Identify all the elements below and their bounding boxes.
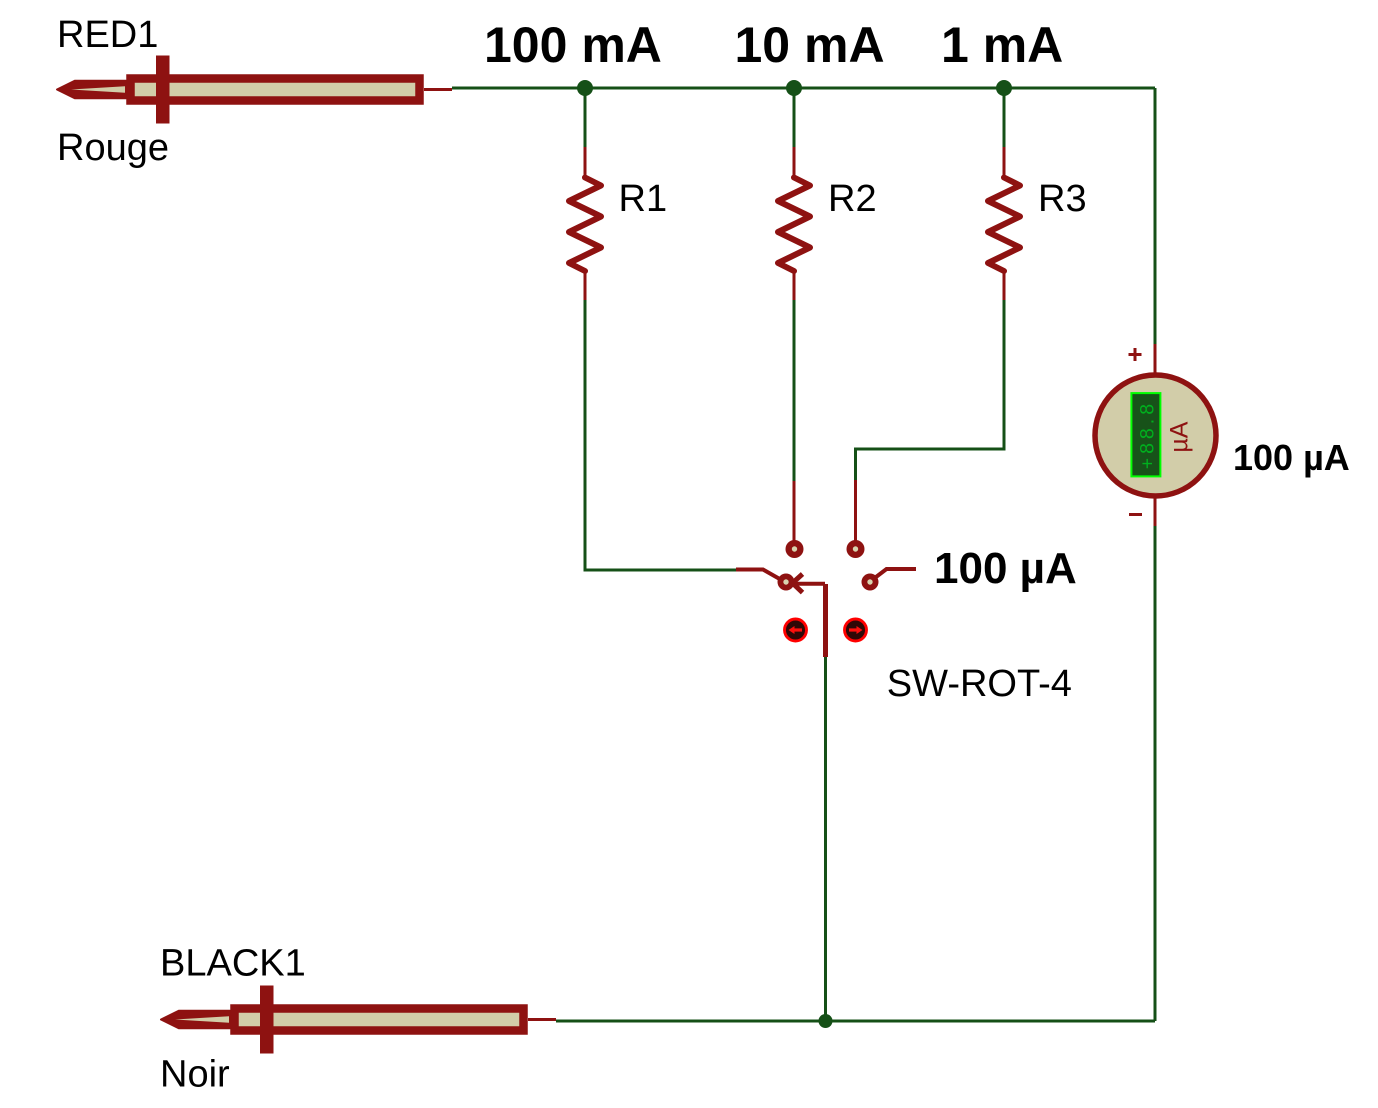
wire right vertical to meter	[1154, 88, 1157, 344]
stub to 100uA terminal	[876, 569, 916, 577]
pin lead from R3	[854, 480, 857, 541]
svg-text:R2: R2	[828, 178, 877, 220]
svg-text:10 mA: 10 mA	[735, 17, 885, 73]
svg-text:100 µA: 100 µA	[934, 544, 1077, 593]
switch SW-ROT-4	[736, 480, 916, 657]
svg-text:Noir: Noir	[160, 1054, 230, 1096]
wire top bus	[452, 87, 1155, 90]
wire R1 top	[584, 88, 587, 147]
minus lead	[1154, 496, 1157, 526]
contact circle right	[862, 574, 879, 591]
svg-text:1 mA: 1 mA	[941, 17, 1063, 73]
junction node 1mA	[996, 80, 1012, 96]
wire R3 bottom elbow to switch	[856, 300, 1005, 480]
meter body circle	[1095, 375, 1216, 496]
svg-text:Rouge: Rouge	[57, 127, 169, 169]
ammeter U1	[1095, 344, 1216, 526]
svg-text:+88.8: +88.8	[1136, 400, 1158, 469]
pin circle top-left	[786, 540, 804, 558]
resistor R1	[569, 147, 601, 300]
pole 1 feed	[736, 570, 785, 583]
svg-text:R1: R1	[619, 178, 668, 220]
minus mark	[1129, 513, 1142, 516]
wire R1 bottom to switch pole 1	[585, 300, 736, 570]
svg-text:100 mA: 100 mA	[484, 17, 662, 73]
junction node 100mA	[577, 80, 593, 96]
svg-text:SW-ROT-4: SW-ROT-4	[887, 663, 1072, 705]
junction node 10mA	[786, 80, 802, 96]
wire R3 top	[1003, 88, 1006, 147]
wire R2 top	[793, 88, 796, 147]
svg-text:R3: R3	[1038, 178, 1087, 220]
wiper arrow	[793, 574, 803, 593]
rotor stem	[823, 584, 828, 657]
svg-text:100 µA: 100 µA	[1233, 437, 1350, 478]
display window	[1131, 393, 1160, 476]
junction node bottom	[819, 1014, 833, 1028]
pin circle top-right	[847, 540, 865, 558]
resistor R2	[778, 147, 810, 300]
svg-text:RED1: RED1	[57, 14, 158, 56]
resistor R3	[988, 147, 1020, 300]
wire switch common to bottom bus	[824, 657, 827, 1021]
probe BLACK1	[161, 986, 556, 1054]
button increment	[845, 619, 867, 641]
contact circle left	[778, 574, 795, 591]
wire meter to bottom bus	[1154, 526, 1157, 1021]
svg-text:µA: µA	[1166, 421, 1194, 452]
button decrement	[785, 619, 807, 641]
probe RED1	[57, 56, 452, 124]
pin lead from R2	[793, 481, 796, 541]
wire bottom bus	[556, 1020, 1155, 1023]
plus lead	[1154, 344, 1157, 375]
plus mark	[1129, 348, 1142, 361]
svg-text:BLACK1: BLACK1	[160, 943, 306, 985]
wire R2 bottom	[793, 300, 796, 481]
